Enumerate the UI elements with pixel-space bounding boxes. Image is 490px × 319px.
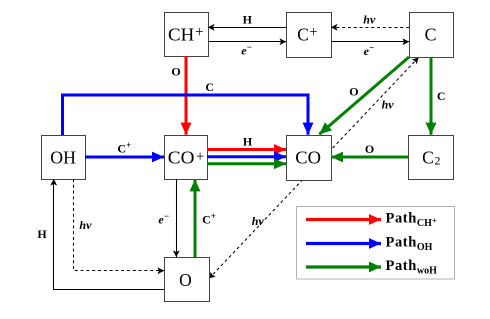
node C2 bbox=[409, 136, 454, 180]
svg-text:+: + bbox=[195, 24, 204, 41]
svg-text:e−: e− bbox=[364, 43, 375, 59]
svg-text:e−: e− bbox=[158, 211, 169, 227]
wire e- : CH+ -> C+ bbox=[208, 41, 286, 43]
svg-text:CO: CO bbox=[295, 148, 321, 168]
wire red H : CO+ -> CO bbox=[207, 148, 286, 151]
svg-text:O: O bbox=[171, 65, 180, 79]
wire blue C : OH -> CO bbox=[63, 95, 309, 135]
wire green O : C -> CO bbox=[319, 57, 409, 134]
node O bbox=[165, 258, 210, 302]
node C bbox=[410, 13, 454, 58]
svg-text:H: H bbox=[243, 12, 253, 26]
svg-text:OH: OH bbox=[50, 148, 76, 168]
svg-text:+: + bbox=[309, 24, 317, 41]
svg-text:C: C bbox=[437, 89, 446, 103]
wire dashed photodissociation CO->O and CO->C (double-headed, behind boxes) bbox=[209, 58, 419, 279]
svg-text:C: C bbox=[422, 148, 434, 168]
legend box bbox=[297, 207, 455, 280]
svg-text:hν: hν bbox=[363, 13, 376, 27]
svg-text:2: 2 bbox=[435, 154, 441, 168]
svg-text:O: O bbox=[179, 270, 192, 290]
wire blue C+ : OH -> CO+ bbox=[85, 156, 164, 159]
svg-text:hν: hν bbox=[382, 98, 395, 112]
node CH+ bbox=[165, 13, 209, 57]
svg-text:C: C bbox=[425, 24, 437, 44]
legend arrow blue bbox=[306, 242, 381, 245]
wire blue : CO+ -> CO bbox=[207, 155, 286, 158]
wire green O : C2 -> CO bbox=[331, 156, 408, 159]
wire red O : CH+ -> CO+ bbox=[185, 56, 188, 135]
wire hv dashed : OH -> O bbox=[74, 179, 165, 271]
wire H : C+ -> CH+ bbox=[208, 27, 286, 29]
wire H : O -> OH bbox=[54, 179, 165, 290]
wire e- : C+ -> C bbox=[331, 41, 409, 43]
svg-text:+: + bbox=[196, 148, 204, 165]
legend arrow green bbox=[306, 265, 381, 268]
svg-text:C+: C+ bbox=[117, 140, 131, 156]
svg-text:C: C bbox=[297, 24, 309, 44]
wire green : CO+ -> CO bbox=[207, 162, 286, 165]
wire green C : C -> C2 bbox=[430, 57, 433, 135]
svg-text:H: H bbox=[243, 135, 253, 149]
svg-text:hν: hν bbox=[79, 218, 92, 232]
svg-text:e−: e− bbox=[241, 42, 252, 58]
svg-text:CH: CH bbox=[168, 24, 195, 44]
svg-text:C: C bbox=[205, 80, 214, 94]
svg-text:H: H bbox=[37, 227, 47, 241]
svg-text:hν: hν bbox=[252, 214, 265, 228]
wire e- : CO+ -> O bbox=[176, 179, 178, 257]
wire green C+ : O -> CO+ bbox=[194, 179, 197, 257]
svg-text:O: O bbox=[349, 85, 358, 99]
node C+ bbox=[287, 13, 332, 58]
svg-text:C+: C+ bbox=[202, 211, 216, 227]
wire hv dashed : C -> C+ bbox=[331, 27, 409, 29]
node OH bbox=[42, 136, 86, 180]
legend arrow red bbox=[306, 218, 381, 221]
node CO bbox=[287, 136, 332, 181]
svg-text:CO: CO bbox=[168, 148, 195, 168]
node CO+ bbox=[165, 136, 208, 180]
svg-text:O: O bbox=[365, 142, 374, 156]
